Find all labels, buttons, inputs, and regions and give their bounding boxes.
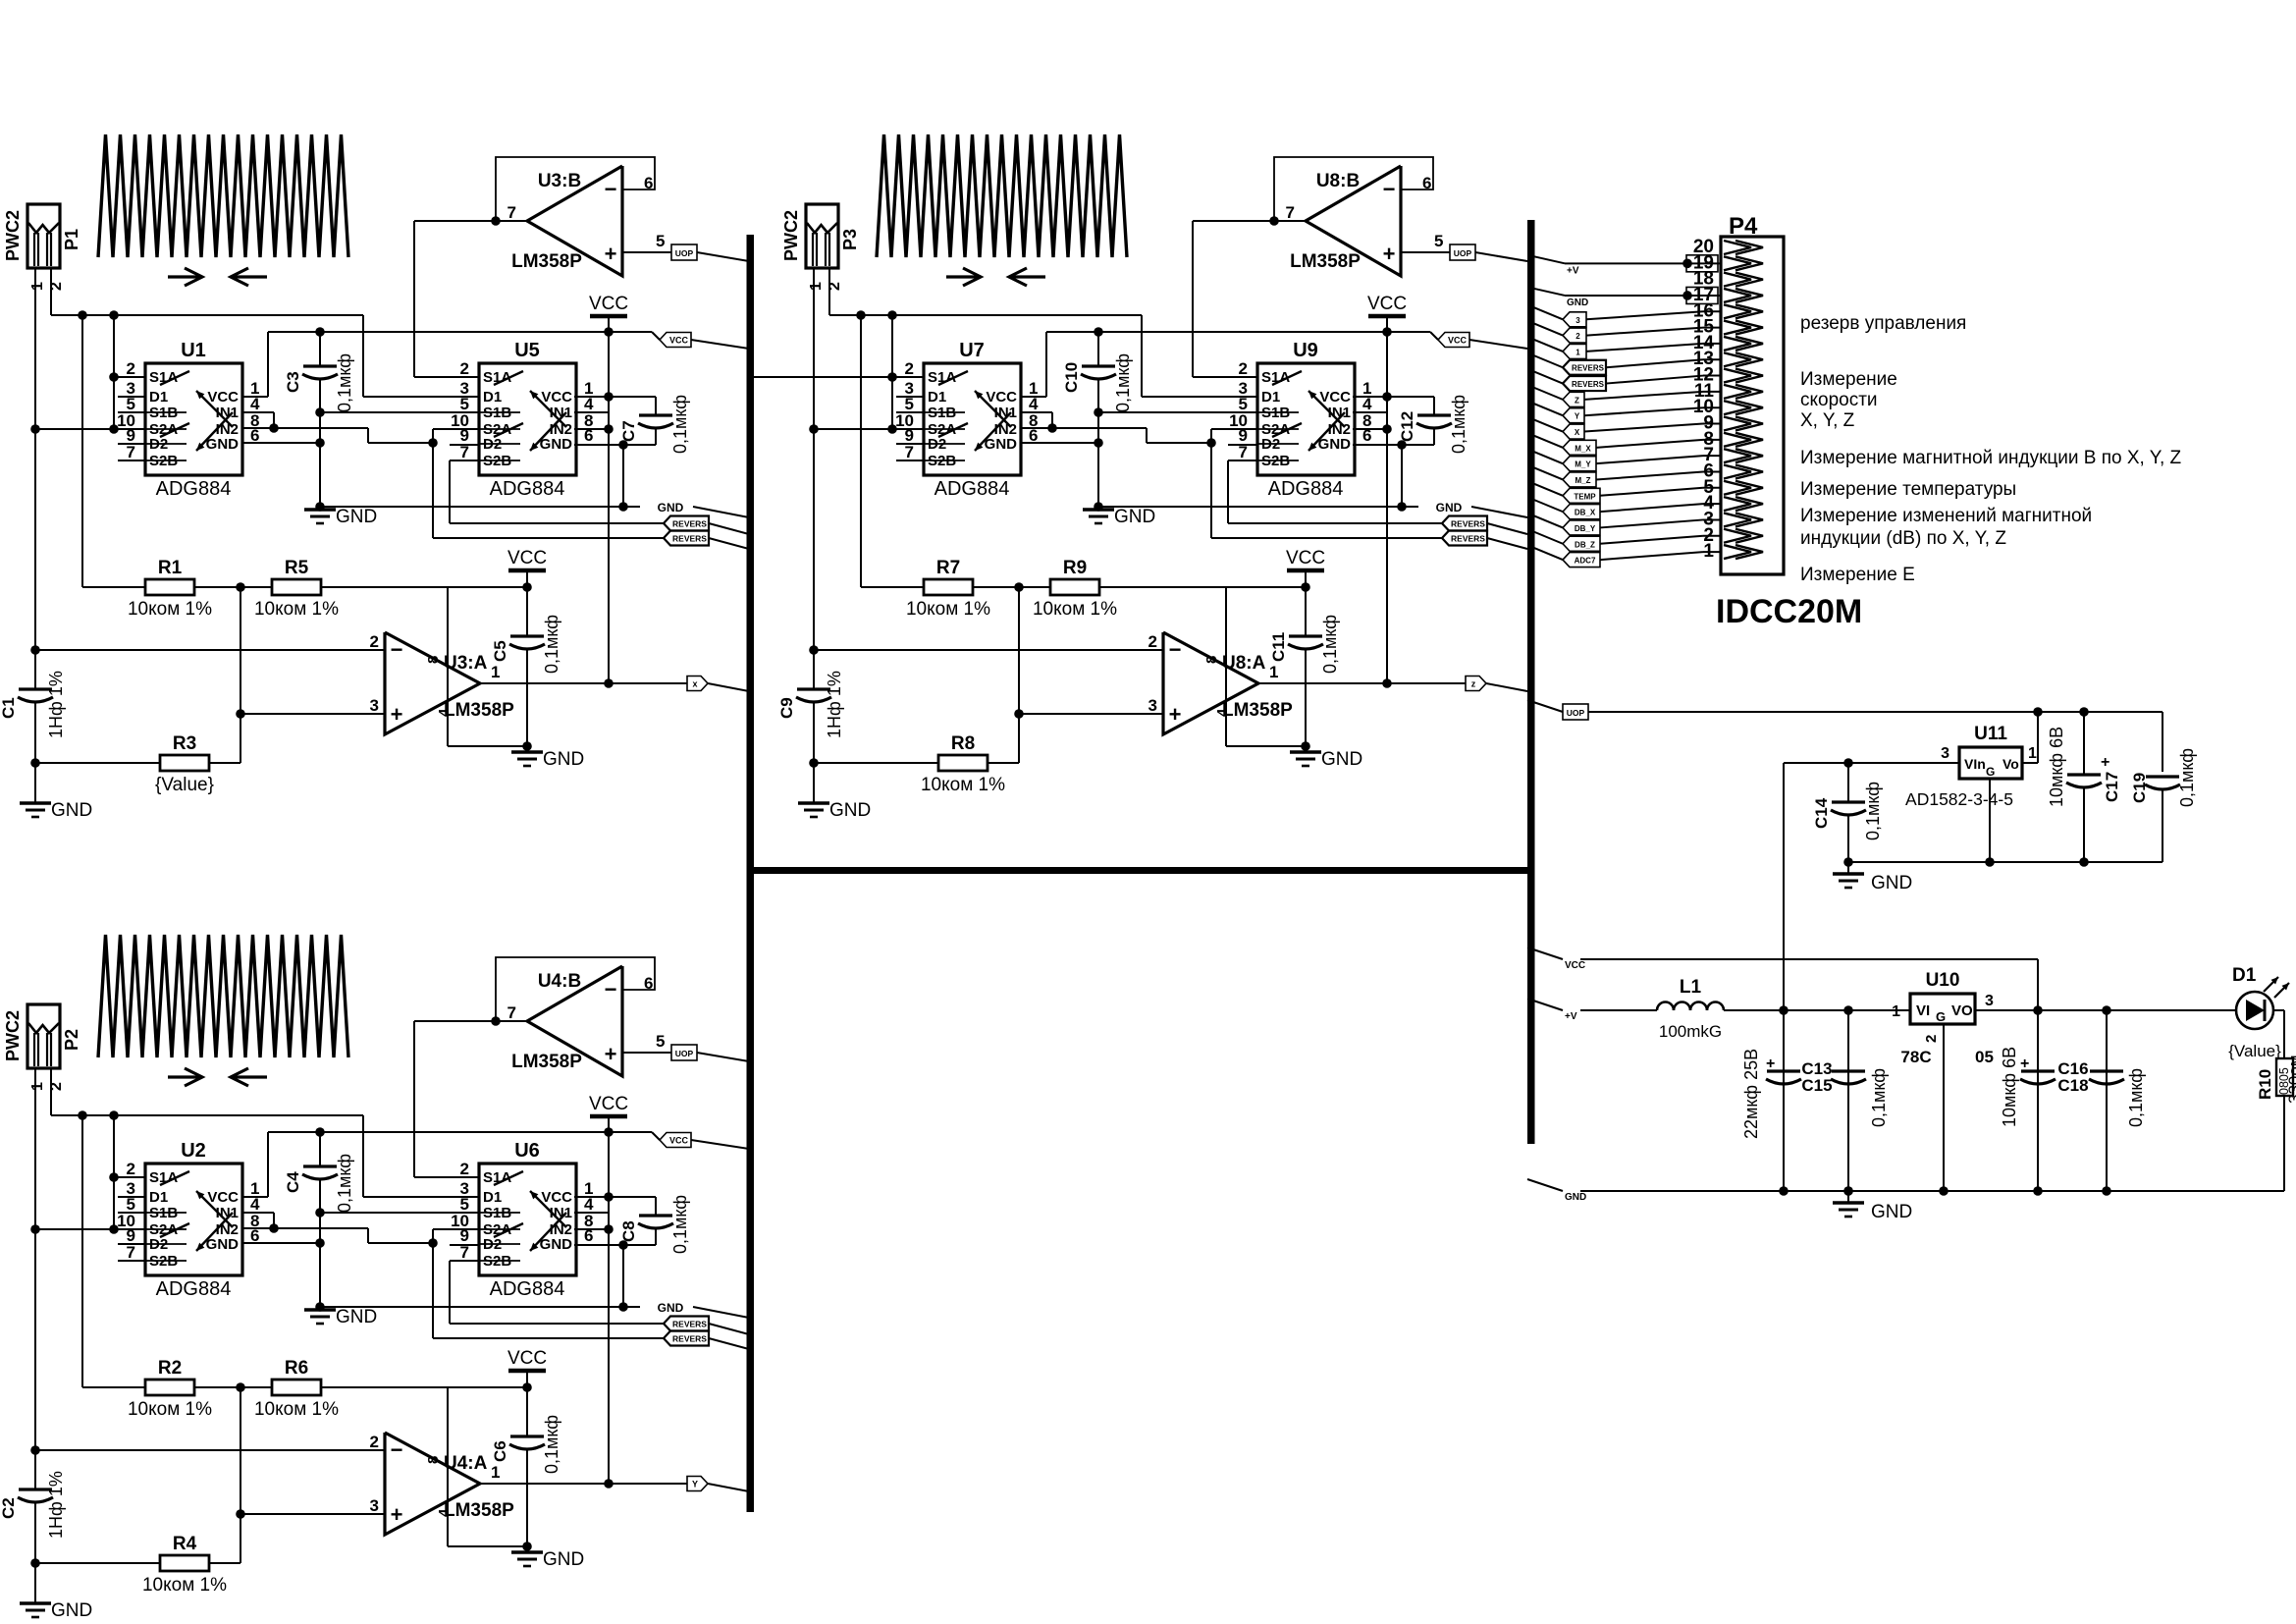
svg-text:L1: L1 (1680, 977, 1702, 998)
svg-text:1: 1 (2028, 745, 2037, 762)
svg-text:10ком 1%: 10ком 1% (142, 1575, 227, 1596)
svg-text:+: + (605, 1042, 617, 1066)
svg-text:VCC: VCC (507, 1348, 547, 1369)
svg-text:U11: U11 (1974, 724, 2007, 744)
svg-text:330ом: 330ом (2285, 1055, 2296, 1104)
svg-text:VCC: VCC (1319, 389, 1351, 406)
svg-text:ADG884: ADG884 (490, 478, 565, 500)
svg-text:резерв управления: резерв управления (1800, 313, 1966, 334)
svg-text:UOP: UOP (675, 1049, 694, 1058)
svg-text:2: 2 (127, 359, 135, 378)
svg-text:ADG884: ADG884 (156, 1278, 232, 1300)
svg-text:1Нф 1%: 1Нф 1% (46, 1471, 66, 1539)
svg-text:0,1мкф: 0,1мкф (335, 1154, 354, 1213)
svg-text:REVERS: REVERS (672, 534, 707, 544)
svg-text:1Нф 1%: 1Нф 1% (825, 671, 844, 738)
svg-text:индукции (dB) по X, Y, Z: индукции (dB) по X, Y, Z (1800, 528, 2006, 549)
svg-text:R10: R10 (2256, 1069, 2274, 1100)
svg-text:R3: R3 (173, 733, 196, 754)
svg-text:0,1мкф: 0,1мкф (1320, 615, 1340, 674)
svg-text:LM358P: LM358P (1222, 700, 1293, 721)
svg-text:REVERS: REVERS (1451, 534, 1485, 544)
svg-text:U1: U1 (181, 340, 206, 361)
svg-text:C19: C19 (2130, 773, 2149, 803)
svg-text:D1: D1 (483, 1189, 502, 1206)
svg-text:1: 1 (808, 282, 825, 291)
svg-text:U2: U2 (181, 1140, 206, 1162)
svg-text:GND: GND (540, 436, 573, 453)
svg-text:10мкф 6В: 10мкф 6В (2047, 727, 2066, 807)
svg-text:GND: GND (543, 749, 584, 770)
svg-text:U3:B: U3:B (538, 171, 581, 191)
svg-text:GND: GND (51, 1600, 92, 1621)
svg-text:2: 2 (1575, 332, 1580, 341)
svg-text:GND: GND (1565, 1192, 1586, 1203)
svg-text:Z: Z (1575, 396, 1579, 405)
svg-text:GND: GND (336, 1307, 377, 1327)
svg-text:IDCC20M: IDCC20M (1716, 593, 1862, 630)
svg-text:M_Z: M_Z (1575, 476, 1591, 485)
svg-text:10ком 1%: 10ком 1% (921, 775, 1005, 795)
svg-text:VCC: VCC (1367, 294, 1407, 314)
svg-text:−: − (391, 637, 403, 662)
svg-text:C18: C18 (2057, 1076, 2088, 1095)
svg-text:C4: C4 (284, 1171, 302, 1193)
svg-text:−: − (605, 977, 617, 1001)
svg-text:1: 1 (491, 663, 500, 681)
svg-text:7: 7 (905, 443, 914, 461)
svg-text:UOP: UOP (1454, 248, 1472, 258)
svg-text:0,1мкф: 0,1мкф (1863, 782, 1883, 840)
svg-text:8: 8 (1203, 656, 1220, 664)
svg-text:R5: R5 (285, 558, 309, 578)
svg-text:GND: GND (206, 1236, 240, 1253)
svg-text:P4: P4 (1729, 213, 1758, 240)
svg-text:0,1мкф: 0,1мкф (670, 395, 690, 454)
svg-text:+: + (1766, 1056, 1775, 1072)
svg-text:C1: C1 (0, 697, 18, 719)
svg-text:GND: GND (658, 1301, 684, 1315)
svg-text:GND: GND (206, 436, 240, 453)
svg-text:PWC2: PWC2 (3, 1010, 23, 1061)
svg-text:+V: +V (1565, 1011, 1577, 1022)
svg-text:LM358P: LM358P (511, 251, 582, 272)
svg-text:7: 7 (1286, 203, 1295, 222)
svg-text:C17: C17 (2103, 772, 2121, 802)
svg-text:ADG884: ADG884 (1268, 478, 1344, 500)
svg-text:05: 05 (1975, 1048, 1994, 1066)
svg-text:0,1мкф: 0,1мкф (335, 353, 354, 412)
svg-text:x: x (692, 679, 697, 689)
svg-text:M_X: M_X (1575, 444, 1591, 453)
svg-text:X: X (1575, 428, 1580, 437)
svg-text:C5: C5 (491, 640, 509, 662)
svg-text:−: − (391, 1437, 403, 1462)
svg-text:+: + (391, 1502, 403, 1527)
svg-text:VCC: VCC (1286, 548, 1325, 568)
svg-text:REVERS: REVERS (672, 519, 707, 529)
svg-text:R4: R4 (173, 1534, 197, 1554)
svg-text:−: − (1383, 177, 1396, 201)
svg-text:D1: D1 (483, 389, 502, 406)
svg-text:C6: C6 (491, 1440, 509, 1462)
svg-text:7: 7 (127, 443, 135, 461)
svg-text:0,1мкф: 0,1мкф (670, 1195, 690, 1254)
svg-text:ADC7: ADC7 (1575, 557, 1596, 566)
svg-text:GND: GND (1321, 749, 1362, 770)
svg-text:R2: R2 (158, 1358, 182, 1379)
svg-text:ADG884: ADG884 (490, 1278, 565, 1300)
svg-text:0,1мкф: 0,1мкф (2177, 748, 2197, 807)
svg-text:3: 3 (1941, 745, 1949, 762)
svg-text:VCC: VCC (1448, 336, 1468, 346)
svg-text:22мкф 25В: 22мкф 25В (1741, 1049, 1761, 1139)
svg-text:U8:A: U8:A (1222, 653, 1266, 674)
svg-text:UOP: UOP (675, 248, 694, 258)
svg-text:+: + (391, 702, 403, 727)
svg-text:Vo: Vo (2002, 756, 2019, 772)
svg-text:1: 1 (1575, 348, 1580, 356)
svg-text:ADG884: ADG884 (156, 478, 232, 500)
svg-text:DB_Y: DB_Y (1575, 524, 1596, 533)
svg-text:3: 3 (1985, 993, 1994, 1009)
svg-text:Y: Y (1575, 412, 1580, 421)
svg-text:GND: GND (1436, 501, 1463, 514)
svg-text:VCC: VCC (207, 389, 239, 406)
svg-text:VIn: VIn (1964, 756, 1986, 772)
svg-text:D1: D1 (149, 1189, 168, 1206)
svg-text:10ком 1%: 10ком 1% (254, 1399, 339, 1420)
svg-text:U5: U5 (514, 340, 540, 361)
svg-text:10ком 1%: 10ком 1% (1033, 599, 1117, 620)
svg-text:2: 2 (127, 1160, 135, 1178)
svg-text:1: 1 (29, 282, 46, 291)
svg-text:VO: VO (1951, 1002, 1973, 1019)
svg-text:VCC: VCC (589, 294, 628, 314)
svg-text:LM358P: LM358P (511, 1052, 582, 1072)
svg-text:+: + (2020, 1056, 2029, 1072)
svg-text:VCC: VCC (207, 1189, 239, 1206)
svg-text:REVERS: REVERS (672, 1320, 707, 1329)
svg-text:{Value}: {Value} (2228, 1042, 2281, 1060)
svg-text:R1: R1 (158, 558, 183, 578)
svg-text:0,1мкф: 0,1мкф (1113, 353, 1133, 412)
svg-text:Измерение: Измерение (1800, 369, 1897, 390)
svg-text:2: 2 (370, 632, 379, 651)
svg-text:AD1582-3-4-5: AD1582-3-4-5 (1905, 789, 2013, 809)
svg-text:100mkG: 100mkG (1659, 1022, 1722, 1041)
svg-text:D1: D1 (928, 389, 946, 406)
svg-text:GND: GND (336, 507, 377, 527)
svg-text:TEMP: TEMP (1574, 492, 1596, 501)
svg-text:GND: GND (51, 800, 92, 821)
svg-text:LM358P: LM358P (444, 700, 514, 721)
svg-text:U8:B: U8:B (1316, 171, 1360, 191)
svg-text:1: 1 (29, 1082, 46, 1091)
svg-text:GND: GND (658, 501, 684, 514)
svg-text:VCC: VCC (1565, 960, 1585, 971)
svg-text:5: 5 (1434, 232, 1443, 250)
svg-text:VCC: VCC (541, 1189, 572, 1206)
svg-text:D1: D1 (149, 389, 168, 406)
svg-text:10ком 1%: 10ком 1% (128, 1399, 212, 1420)
svg-text:скорости: скорости (1800, 390, 1878, 410)
svg-text:R6: R6 (285, 1358, 308, 1379)
svg-text:REVERS: REVERS (672, 1334, 707, 1344)
svg-text:VCC: VCC (669, 1136, 689, 1146)
svg-text:U7: U7 (959, 340, 985, 361)
svg-text:U4:B: U4:B (538, 971, 581, 992)
svg-text:3: 3 (370, 1496, 379, 1515)
svg-text:C10: C10 (1062, 362, 1081, 393)
svg-text:3: 3 (1148, 696, 1157, 715)
svg-text:C14: C14 (1812, 797, 1831, 829)
svg-text:+V: +V (1567, 265, 1579, 276)
svg-text:+: + (2101, 754, 2109, 771)
svg-text:U3:A: U3:A (444, 653, 488, 674)
svg-text:C2: C2 (0, 1497, 18, 1519)
svg-text:7: 7 (507, 203, 516, 222)
svg-text:PWC2: PWC2 (781, 210, 801, 261)
svg-text:78C: 78C (1900, 1048, 1931, 1066)
svg-text:LM358P: LM358P (444, 1500, 514, 1521)
svg-text:8: 8 (425, 656, 442, 664)
svg-text:U10: U10 (1926, 970, 1960, 991)
svg-text:M_Y: M_Y (1575, 460, 1591, 469)
svg-text:REVERS: REVERS (1572, 380, 1605, 389)
svg-text:R7: R7 (936, 558, 960, 578)
svg-text:UOP: UOP (1567, 708, 1585, 718)
svg-text:2: 2 (460, 359, 469, 378)
svg-text:REVERS: REVERS (1572, 364, 1605, 373)
svg-text:C9: C9 (777, 697, 796, 719)
svg-text:C7: C7 (619, 420, 638, 442)
svg-text:VCC: VCC (541, 389, 572, 406)
svg-text:Измерение Е: Измерение Е (1800, 565, 1915, 585)
svg-text:5: 5 (656, 232, 665, 250)
svg-text:10ком 1%: 10ком 1% (906, 599, 990, 620)
svg-text:2: 2 (460, 1160, 469, 1178)
svg-text:8: 8 (425, 1456, 442, 1464)
svg-text:−: − (1169, 637, 1182, 662)
svg-text:10ком 1%: 10ком 1% (254, 599, 339, 620)
svg-text:R9: R9 (1063, 558, 1087, 578)
svg-text:C12: C12 (1398, 411, 1416, 442)
svg-text:GND: GND (543, 1549, 584, 1570)
svg-text:2: 2 (1148, 632, 1157, 651)
svg-text:+: + (1169, 702, 1182, 727)
svg-text:GND: GND (1871, 1202, 1912, 1222)
svg-text:3: 3 (370, 696, 379, 715)
svg-text:5: 5 (656, 1032, 665, 1051)
svg-text:P1: P1 (62, 229, 81, 250)
svg-text:ADG884: ADG884 (934, 478, 1010, 500)
svg-text:G: G (1986, 765, 1995, 779)
svg-text:+: + (605, 242, 617, 266)
svg-text:P3: P3 (840, 229, 860, 250)
svg-text:U9: U9 (1293, 340, 1318, 361)
svg-text:0,1мкф: 0,1мкф (1449, 395, 1468, 454)
svg-text:0,1мкф: 0,1мкф (542, 1415, 561, 1474)
svg-text:REVERS: REVERS (1451, 519, 1485, 529)
svg-text:C15: C15 (1801, 1076, 1832, 1095)
svg-text:7: 7 (507, 1003, 516, 1022)
svg-text:C11: C11 (1269, 632, 1288, 662)
svg-text:1: 1 (491, 1463, 500, 1482)
svg-text:C3: C3 (284, 371, 302, 393)
svg-text:7: 7 (127, 1243, 135, 1262)
svg-text:Измерение изменений магнитной: Измерение изменений магнитной (1800, 506, 2092, 526)
svg-text:GND: GND (540, 1236, 573, 1253)
svg-text:GND: GND (1114, 507, 1155, 527)
svg-text:Измерение температуры: Измерение температуры (1800, 479, 2016, 500)
svg-text:0,1мкф: 0,1мкф (2126, 1068, 2146, 1127)
svg-text:DB_X: DB_X (1575, 509, 1596, 517)
svg-text:2: 2 (905, 359, 914, 378)
svg-text:VCC: VCC (669, 336, 689, 346)
svg-text:10мкф 6В: 10мкф 6В (2000, 1047, 2019, 1127)
svg-text:1: 1 (1892, 1003, 1900, 1020)
svg-text:VCC: VCC (589, 1094, 628, 1114)
svg-text:0,1мкф: 0,1мкф (542, 615, 561, 674)
svg-text:C8: C8 (619, 1220, 638, 1242)
svg-text:0,1мкф: 0,1мкф (1869, 1068, 1889, 1127)
svg-text:GND: GND (829, 800, 871, 821)
svg-text:R8: R8 (951, 733, 975, 754)
svg-text:D1: D1 (2232, 965, 2257, 986)
svg-text:G: G (1936, 1009, 1946, 1024)
svg-text:2: 2 (1923, 1035, 1940, 1043)
svg-text:+: + (1383, 242, 1396, 266)
svg-text:3: 3 (1575, 316, 1580, 325)
svg-text:GND: GND (1567, 298, 1588, 308)
svg-text:1Нф 1%: 1Нф 1% (46, 671, 66, 738)
svg-text:VCC: VCC (507, 548, 547, 568)
svg-text:1: 1 (1269, 663, 1278, 681)
svg-text:2: 2 (370, 1433, 379, 1451)
svg-text:VI: VI (1916, 1002, 1930, 1019)
svg-text:Измерение магнитной индукции В: Измерение магнитной индукции В по X, Y, … (1800, 448, 2182, 468)
svg-text:10ком 1%: 10ком 1% (128, 599, 212, 620)
svg-text:GND: GND (1318, 436, 1352, 453)
svg-text:{Value}: {Value} (155, 775, 214, 795)
svg-text:−: − (605, 177, 617, 201)
svg-text:U6: U6 (514, 1140, 540, 1162)
svg-text:P2: P2 (62, 1029, 81, 1051)
svg-text:PWC2: PWC2 (3, 210, 23, 261)
svg-text:z: z (1471, 679, 1476, 689)
svg-text:Y: Y (692, 1480, 698, 1489)
svg-text:GND: GND (1871, 873, 1912, 893)
svg-text:LM358P: LM358P (1290, 251, 1361, 272)
svg-text:2: 2 (1239, 359, 1248, 378)
svg-text:U4:A: U4:A (444, 1453, 488, 1474)
svg-text:X, Y, Z: X, Y, Z (1800, 410, 1855, 431)
svg-text:VCC: VCC (986, 389, 1017, 406)
svg-text:GND: GND (985, 436, 1018, 453)
svg-text:D1: D1 (1261, 389, 1280, 406)
svg-text:20: 20 (1693, 237, 1714, 257)
svg-text:DB_Z: DB_Z (1575, 540, 1595, 549)
